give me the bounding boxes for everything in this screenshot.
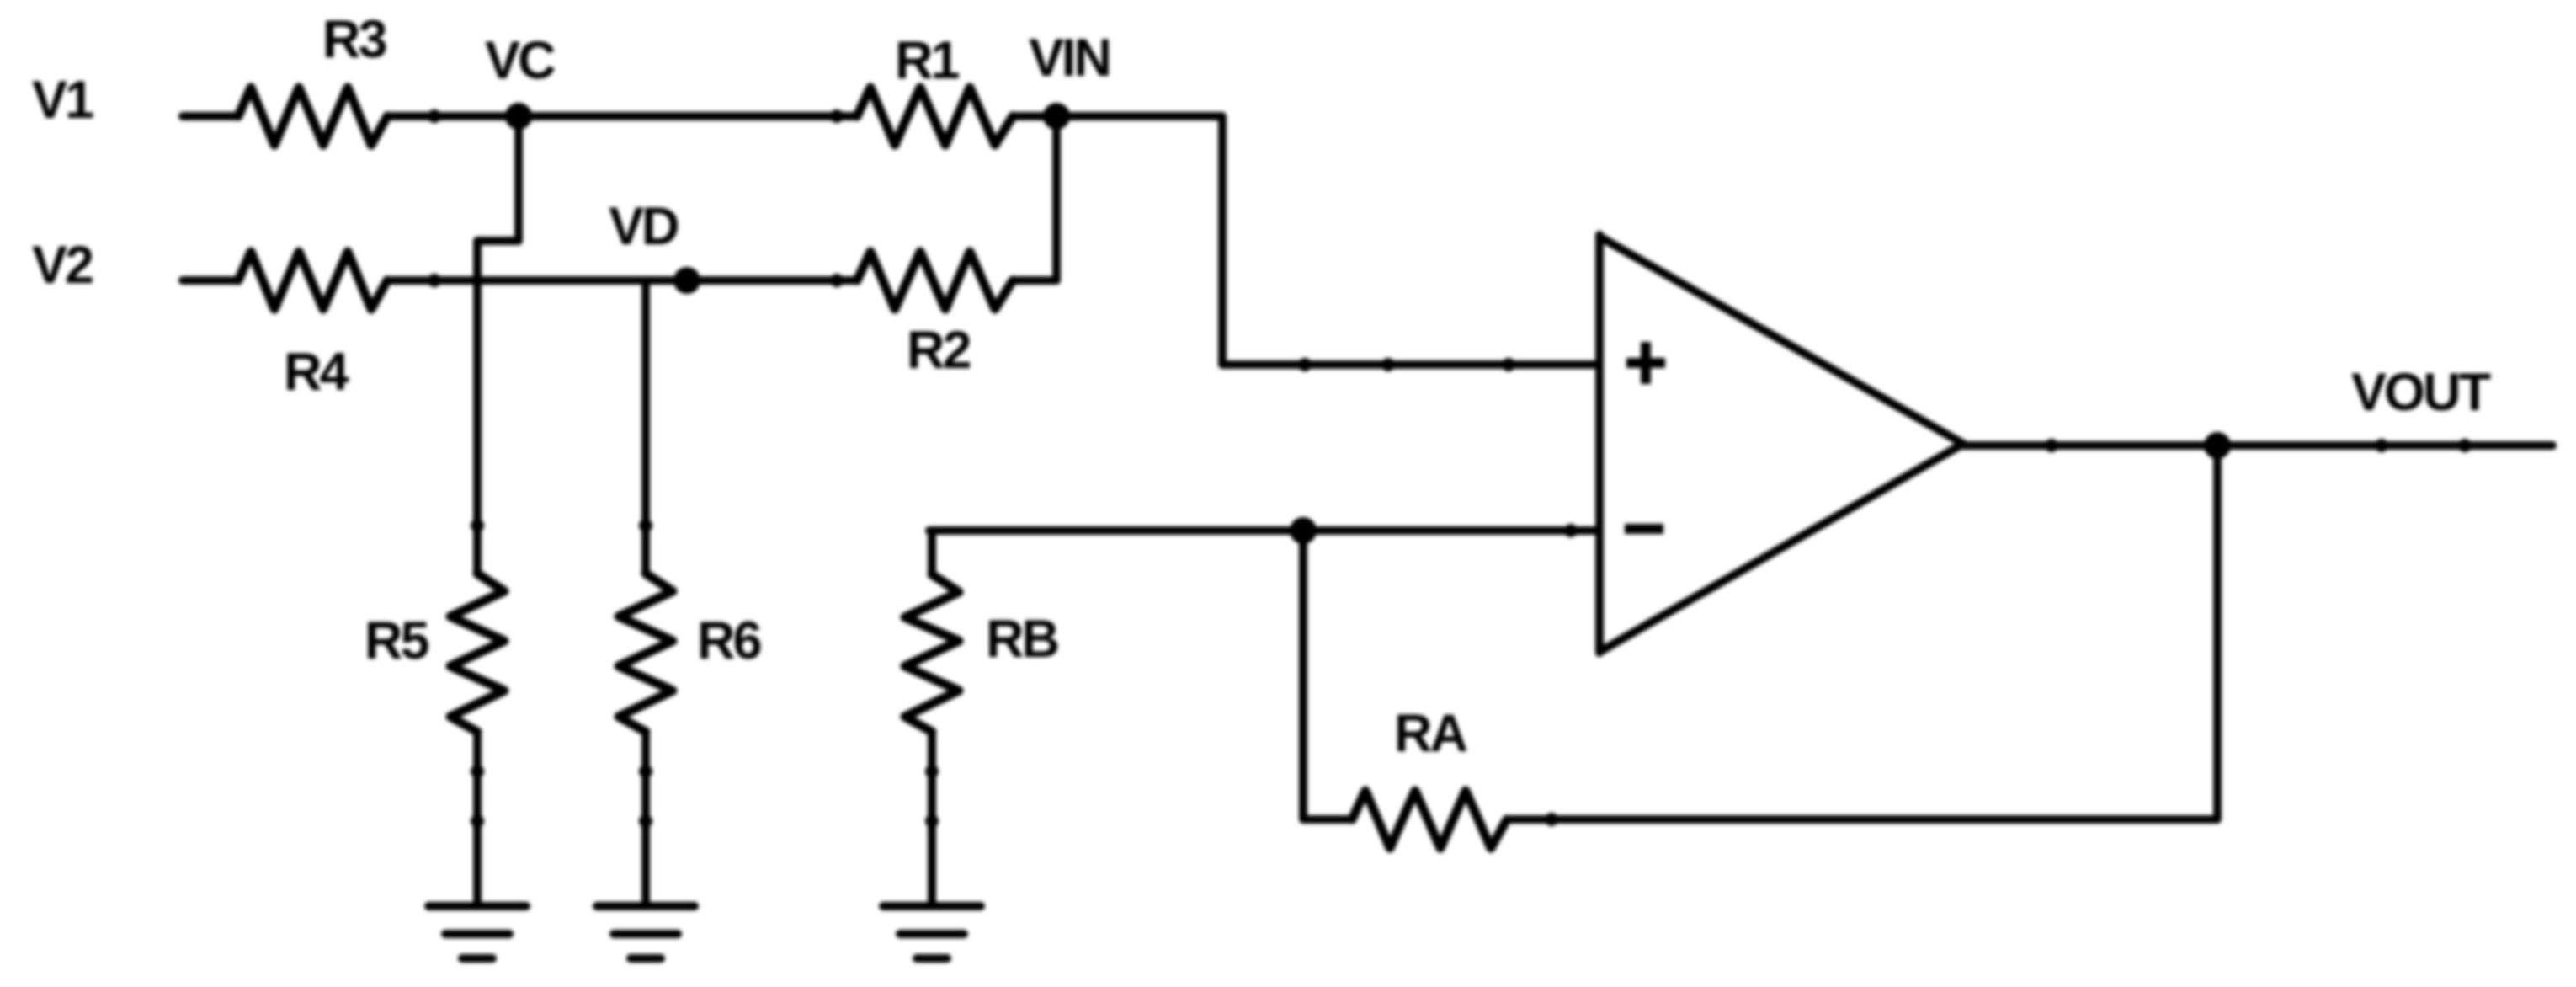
resistor R5 [450, 574, 504, 732]
wire V1 lead [183, 112, 238, 120]
svg-text:VIN: VIN [1029, 29, 1110, 88]
wire minus input row [929, 526, 1597, 535]
resistor RA [1352, 791, 1507, 848]
svg-text:V1: V1 [32, 71, 93, 130]
resistor R6 [619, 574, 673, 732]
resistor R2 [857, 252, 1013, 309]
op-amp U1 [1599, 235, 1963, 653]
node minus dot [1290, 517, 1317, 544]
ground (RB) [883, 906, 981, 958]
resistor R1 [857, 88, 1013, 145]
wire R5 to ground [473, 732, 482, 902]
svg-text:R4: R4 [284, 343, 349, 402]
node VIN dot [1043, 103, 1070, 130]
wire V2 lead [183, 276, 238, 285]
node VC dot [505, 103, 532, 130]
wire RB top corner [928, 531, 936, 574]
svg-text:VOUT: VOUT [2351, 363, 2491, 422]
svg-text:R5: R5 [365, 611, 428, 670]
wire R2 right up to VIN [1013, 116, 1056, 280]
svg-text:VD: VD [609, 197, 678, 256]
svg-text:R1: R1 [895, 31, 959, 90]
resistor R4 [238, 252, 387, 309]
svg-text:R6: R6 [697, 611, 760, 670]
wire R6 to ground [641, 732, 650, 902]
op-amp plus pin symbol [1626, 342, 1665, 384]
svg-text:R2: R2 [907, 321, 970, 380]
wire VC to R1 (row A) [387, 112, 857, 120]
op-amp minus pin symbol [1625, 524, 1663, 534]
node VD dot [673, 267, 700, 294]
wire VD down to R6 [641, 280, 650, 574]
svg-text:R3: R3 [322, 10, 386, 69]
resistor RB [905, 574, 959, 732]
node VOUT dot [2204, 432, 2231, 459]
wire minus node down to RA [1303, 531, 1352, 819]
wire output VOUT [1963, 441, 2552, 450]
svg-text:V2: V2 [32, 236, 93, 295]
wire RB to ground [928, 732, 936, 902]
ground (R5) [428, 906, 526, 958]
resistor R3 [238, 88, 387, 145]
ground (R6) [597, 906, 695, 958]
svg-text:RB: RB [986, 610, 1057, 669]
wire VC step down to R5 [477, 116, 519, 574]
svg-text:VC: VC [485, 31, 555, 90]
wire RA to output branch [1507, 446, 2217, 819]
wire row B: R4 to R2 [387, 276, 857, 285]
wire VIN to corner, down to plus input [1013, 116, 1597, 365]
wire joint ticks [428, 109, 2472, 828]
svg-text:RA: RA [1394, 704, 1466, 763]
